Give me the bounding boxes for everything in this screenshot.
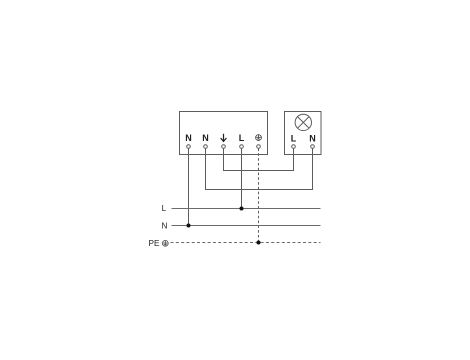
sensor/control unit box U1 [180, 112, 268, 155]
svg-text:N: N [185, 133, 192, 143]
wire: box pin3 switched output to lamp L [224, 149, 294, 171]
wire: box pin5 PE dashed down to PE bus [258, 149, 260, 243]
PE earth symbol label (pin 5) [256, 135, 262, 141]
svg-text:PE: PE [149, 239, 160, 248]
L bus line [172, 208, 321, 210]
lamp terminal circle L [292, 145, 296, 149]
lamp box E1 [285, 112, 322, 155]
wire: box pin1 N down to N bus [188, 149, 190, 226]
junction dot on N bus [187, 224, 191, 228]
svg-text:L: L [239, 133, 245, 143]
PE earth symbol at bus label [162, 240, 168, 246]
junction dot on L bus [240, 207, 244, 211]
PE bus dashed line [171, 242, 321, 244]
svg-text:N: N [161, 221, 167, 230]
N bus line [172, 225, 321, 227]
wire: box pin2 N to lamp N [206, 149, 313, 190]
lamp symbol (circle with X) [295, 114, 311, 130]
svg-text:N: N [309, 133, 316, 143]
switched-output arrow label (pin 3) [221, 134, 227, 142]
terminal circle pin2 N [204, 145, 208, 149]
svg-text:L: L [291, 133, 297, 143]
lamp terminal circle N [311, 145, 315, 149]
terminal circle pin1 N [187, 145, 191, 149]
svg-text:N: N [202, 133, 209, 143]
terminal circle pin5 PE [257, 145, 261, 149]
wire: box pin4 L down to L bus [241, 149, 243, 209]
junction dot on PE bus [257, 241, 261, 245]
terminal circle pin3 arrow [222, 145, 226, 149]
svg-text:L: L [162, 204, 167, 213]
terminal circle pin4 L [240, 145, 244, 149]
